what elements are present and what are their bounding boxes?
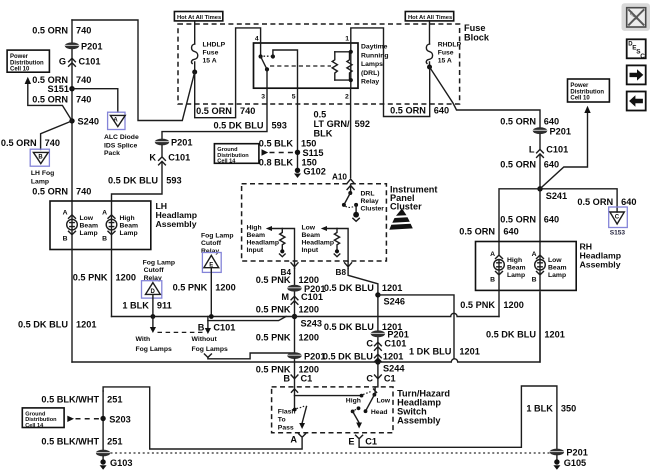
svg-text:0.5 ORN: 0.5 ORN xyxy=(1,138,37,148)
svg-text:Fuse: Fuse xyxy=(438,50,454,57)
svg-text:Distribution: Distribution xyxy=(10,60,44,66)
wire: B4 column 0.5 PNK 1200 (x=294.5) xyxy=(294,268,296,352)
svg-text:0.5 PNK: 0.5 PNK xyxy=(256,305,291,315)
svg-text:1201: 1201 xyxy=(459,346,479,356)
svg-text:Cell 10: Cell 10 xyxy=(10,67,30,73)
svg-text:G105: G105 xyxy=(564,458,586,468)
svg-text:G: G xyxy=(59,57,66,67)
svg-text:Input: Input xyxy=(302,247,319,254)
svg-text:G103: G103 xyxy=(110,458,132,468)
svg-text:15 A: 15 A xyxy=(438,58,452,65)
label 0.5 ORN 740 (fog lamp wire) xyxy=(1,138,60,148)
label 0.5 BLK 150 xyxy=(259,138,317,148)
svg-text:1201: 1201 xyxy=(382,283,402,293)
svg-text:P201: P201 xyxy=(81,41,102,51)
svg-text:S153: S153 xyxy=(610,230,626,237)
svg-text:1: 1 xyxy=(345,36,349,43)
svg-text:740: 740 xyxy=(45,138,60,148)
arrow wire from S240 to power distribution cell 10 xyxy=(25,77,72,121)
svg-text:640: 640 xyxy=(621,197,636,207)
svg-text:A: A xyxy=(490,251,495,258)
svg-text:1200: 1200 xyxy=(503,300,523,310)
LH headlamp assembly box xyxy=(50,201,197,250)
svg-text:740: 740 xyxy=(76,187,91,197)
svg-text:Fog Lamp: Fog Lamp xyxy=(201,233,233,240)
svg-text:0.5 BLK/WHT: 0.5 BLK/WHT xyxy=(41,436,99,446)
svg-text:B: B xyxy=(532,277,537,284)
connector B C101 (without fog lamps tap) xyxy=(192,317,287,358)
svg-text:0.5 PNK: 0.5 PNK xyxy=(256,333,291,343)
cluster low beam headlamp input xyxy=(302,225,349,262)
svg-text:0.5 DK BLU: 0.5 DK BLU xyxy=(324,283,374,293)
svg-text:DRL: DRL xyxy=(361,191,375,198)
ALC diode IDS splice pack (triangle A) xyxy=(104,112,139,157)
wire: switch A to S203 ground run xyxy=(103,387,302,449)
svg-text:0.5 ORN: 0.5 ORN xyxy=(459,226,495,236)
icon button: prev arrow xyxy=(627,92,646,111)
svg-text:Lamp: Lamp xyxy=(31,178,49,185)
wire: LH high beam B down to PNK run xyxy=(111,230,113,317)
svg-text:Low: Low xyxy=(80,215,94,222)
svg-text:Lamps: Lamps xyxy=(361,61,383,68)
connector P201 (G103) xyxy=(96,450,110,457)
wire: RH low beam B to DK BLU trunk xyxy=(539,270,541,362)
svg-text:LHDLP: LHDLP xyxy=(203,42,226,49)
svg-text:1201: 1201 xyxy=(76,319,96,329)
svg-text:0.8 BLK: 0.8 BLK xyxy=(259,158,294,168)
svg-text:C101: C101 xyxy=(546,145,568,155)
splice S244 xyxy=(375,359,405,373)
ground distribution cell 14 box (bottom left) xyxy=(22,408,64,429)
fuse RHDLP 15A xyxy=(426,21,461,70)
wire: relay pin5 to ground G102 xyxy=(297,88,299,168)
svg-text:B: B xyxy=(198,322,205,332)
svg-text:1200: 1200 xyxy=(299,333,319,343)
splice S203 xyxy=(100,391,130,450)
icon button: next arrow xyxy=(627,65,646,84)
svg-text:BLK: BLK xyxy=(314,129,333,139)
svg-text:2: 2 xyxy=(345,94,349,101)
svg-text:C: C xyxy=(366,339,373,349)
label 0.5 PNK 1200 (LH high beam) xyxy=(73,272,136,282)
wire: without-fog-lamps bypass to B C1 xyxy=(208,353,295,359)
svg-text:Cutoff: Cutoff xyxy=(201,240,222,247)
hot at all times box (right) xyxy=(405,12,453,21)
svg-text:Cluster: Cluster xyxy=(390,202,422,212)
label 0.5 PNK 1200 (B C1) xyxy=(256,364,319,374)
svg-text:Fuse: Fuse xyxy=(203,50,219,57)
svg-text:350: 350 xyxy=(561,403,576,413)
svg-text:Fog Lamp: Fog Lamp xyxy=(143,259,175,266)
icon button: ESC xyxy=(627,39,646,60)
splice S151 xyxy=(48,84,75,94)
cluster high beam headlamp input xyxy=(247,225,295,262)
svg-text:Pass: Pass xyxy=(278,425,294,432)
svg-text:Beam: Beam xyxy=(247,232,266,239)
icon button: disabled zoom (crossed) xyxy=(622,3,650,31)
svg-text:Assembly: Assembly xyxy=(156,219,197,229)
DRL relay cluster switch xyxy=(342,184,384,221)
wire: RHDLP fuse to right trunk xyxy=(430,67,541,127)
connector M C101 xyxy=(281,292,323,304)
svg-text:With: With xyxy=(136,336,151,343)
wire: relay pin4 feed from LHDLP fuse xyxy=(195,28,261,118)
fuse block dashed border xyxy=(178,23,490,104)
splice S241 xyxy=(537,186,567,201)
svg-text:B: B xyxy=(102,236,107,243)
svg-text:1 BLK: 1 BLK xyxy=(122,300,149,310)
svg-text:1200: 1200 xyxy=(116,272,136,282)
wire: S246 to right drop xyxy=(378,295,454,358)
label 0.5 ORN 640 (triangle C wire) xyxy=(577,197,636,207)
label 0.5 PNK 1200 (B4) xyxy=(256,275,319,285)
svg-text:RHDLP: RHDLP xyxy=(438,42,462,49)
svg-text:0.5 DK BLU: 0.5 DK BLU xyxy=(323,352,373,362)
label 0.5 PNK 1200 (RH high beam) xyxy=(460,300,524,310)
svg-text:LT GRN/: LT GRN/ xyxy=(314,119,351,129)
svg-text:A: A xyxy=(532,251,537,258)
svg-text:0.5 DK BLU: 0.5 DK BLU xyxy=(18,319,68,329)
ground G105 xyxy=(553,455,586,469)
svg-text:0.5 BLK/WHT: 0.5 BLK/WHT xyxy=(41,394,99,404)
LH high beam lamp xyxy=(102,210,138,243)
wire: LHDLP fuse to left trunk xyxy=(72,20,195,121)
svg-text:K: K xyxy=(149,152,156,162)
svg-text:C1: C1 xyxy=(384,373,396,383)
svg-text:0.5 PNK: 0.5 PNK xyxy=(73,272,108,282)
pin B8 xyxy=(336,262,352,277)
svg-text:Headlamp: Headlamp xyxy=(302,240,334,247)
wire: triangle E to PNK run xyxy=(210,268,212,317)
flash to pass switch xyxy=(278,388,307,431)
label 0.5 BLK/WHT 251 (upper) xyxy=(41,394,122,404)
svg-text:G102: G102 xyxy=(303,167,325,177)
svg-text:S240: S240 xyxy=(78,117,99,127)
svg-text:Beam: Beam xyxy=(507,264,526,271)
svg-text:Input: Input xyxy=(247,247,264,254)
label 0.5 BLK/WHT 251 (lower) xyxy=(41,436,122,446)
svg-text:Beam: Beam xyxy=(80,223,99,230)
svg-text:B: B xyxy=(283,373,290,383)
with fog lamps option arrow xyxy=(136,317,172,354)
wire: S241 right branch to triangle C xyxy=(540,189,617,212)
svg-text:L: L xyxy=(529,145,535,155)
dashed reference arrow to S203 xyxy=(67,416,99,422)
label 0.5 PNK 1200 (above P201 B) xyxy=(256,333,319,343)
svg-text:0.5 PNK: 0.5 PNK xyxy=(460,300,495,310)
headlamp switch (high/low/head) xyxy=(295,388,391,429)
dashed option link xyxy=(158,331,203,333)
label 1 BLK 350 xyxy=(526,403,576,413)
label 0.5 ORN 640 (above P201 L) xyxy=(500,117,559,127)
RH headlamp assembly box xyxy=(476,242,622,291)
relay actuation dashed link xyxy=(270,65,331,67)
svg-text:740: 740 xyxy=(76,95,91,105)
connector P201 (M) xyxy=(287,284,325,294)
splice S115 xyxy=(295,148,324,158)
svg-text:Assembly: Assembly xyxy=(397,415,441,425)
svg-text:1201: 1201 xyxy=(544,329,564,339)
svg-text:0.5 ORN: 0.5 ORN xyxy=(577,197,613,207)
svg-text:640: 640 xyxy=(544,215,559,225)
svg-text:Fuse: Fuse xyxy=(464,23,485,33)
svg-text:A: A xyxy=(290,435,297,445)
splice S246 xyxy=(375,292,405,306)
svg-text:Lamp: Lamp xyxy=(548,272,566,279)
svg-text:B: B xyxy=(38,154,43,160)
connector C C101 xyxy=(366,339,406,351)
svg-text:Fog Lamps: Fog Lamps xyxy=(192,346,228,353)
svg-text:Without: Without xyxy=(192,336,218,343)
svg-text:P201: P201 xyxy=(550,126,571,136)
svg-text:Cell 14: Cell 14 xyxy=(217,159,236,165)
wire: S241 left branch to RH high beam xyxy=(499,189,540,255)
svg-text:0.5 ORN: 0.5 ORN xyxy=(32,187,68,197)
svg-text:640: 640 xyxy=(544,117,559,127)
svg-text:593: 593 xyxy=(272,120,287,130)
arrow wire from S241 to power distribution cell 10 xyxy=(540,106,591,189)
svg-text:0.5 DK BLU: 0.5 DK BLU xyxy=(324,322,374,332)
svg-text:P201: P201 xyxy=(171,138,192,148)
ground G102 xyxy=(294,167,326,179)
svg-text:0.5 PNK: 0.5 PNK xyxy=(173,282,208,292)
svg-text:Assembly: Assembly xyxy=(580,260,621,270)
label 1 DK BLU 1201 xyxy=(409,346,480,356)
svg-text:Lamp: Lamp xyxy=(120,230,138,237)
svg-text:Hot At All Times: Hot At All Times xyxy=(177,15,221,21)
triangle C (S153) xyxy=(609,207,628,237)
wire: relay pin2 to cluster A10 xyxy=(350,88,352,178)
svg-text:C101: C101 xyxy=(384,339,406,349)
wire: RH high beam B to PNK run xyxy=(498,270,500,316)
relay resistor xyxy=(347,52,352,80)
svg-text:High: High xyxy=(346,398,361,405)
svg-text:Running: Running xyxy=(361,52,389,59)
DRL relay box xyxy=(254,43,389,88)
svg-text:C101: C101 xyxy=(301,292,323,302)
svg-text:A: A xyxy=(102,210,107,217)
label 0.5 PNK 1200 (triangle E wire) xyxy=(173,282,236,292)
svg-text:High: High xyxy=(507,257,522,264)
svg-text:1 DK BLU: 1 DK BLU xyxy=(409,346,452,356)
label 0.5 ORN 740 (pin4 feed, inside U) xyxy=(196,106,255,116)
svg-text:0.5 PNK: 0.5 PNK xyxy=(256,275,291,285)
svg-text:Lamp: Lamp xyxy=(80,230,98,237)
svg-text:S151: S151 xyxy=(48,84,69,94)
label 0.5 ORN 740 row1 xyxy=(32,26,91,36)
svg-text:Cell 14: Cell 14 xyxy=(25,423,44,429)
label 0.5 DK BLU 1201 (B8) xyxy=(324,283,402,293)
connector P201 (L) xyxy=(533,126,571,136)
svg-text:Beam: Beam xyxy=(120,223,139,230)
svg-text:(DRL): (DRL) xyxy=(361,70,380,77)
svg-text:640: 640 xyxy=(544,159,559,169)
svg-text:251: 251 xyxy=(107,436,122,446)
svg-text:0.5 BLK: 0.5 BLK xyxy=(259,138,294,148)
power distribution cell 10 box (right) xyxy=(568,79,610,102)
relay internal switch pin4 xyxy=(259,43,298,88)
wire: LH low beam B down to DK BLU trunk run xyxy=(71,230,73,362)
wire: triangle D to PNK run (1 BLK 911) xyxy=(152,295,154,317)
svg-text:Low: Low xyxy=(302,225,316,232)
label 0.5 DK BLU 1201 (RH low beam) xyxy=(486,329,565,339)
wire: left trunk 0.5 ORN 740 (x=72) xyxy=(71,20,73,219)
svg-text:Distribution: Distribution xyxy=(570,89,604,95)
wire: DK BLU 1201 trunk run xyxy=(72,293,540,362)
hot at all times box (left) xyxy=(174,12,222,21)
svg-text:High: High xyxy=(247,225,262,232)
fog lamp cutoff relay (triangle E) xyxy=(201,233,233,273)
wire: relay pin3 to K C101 xyxy=(162,88,267,139)
svg-text:1200: 1200 xyxy=(299,305,319,315)
svg-text:Low: Low xyxy=(377,398,391,405)
connector L C101 xyxy=(529,134,568,189)
connector P201 (G105) xyxy=(550,448,588,458)
label 0.5 ORN 740 row4 (into LH headlamp) xyxy=(32,187,91,197)
power distribution cell 10 box (left) xyxy=(7,50,49,73)
svg-text:ALC Diode: ALC Diode xyxy=(104,134,139,141)
connector P201 (C) xyxy=(371,330,409,340)
wire: E C1 to G105 (1 BLK 350) xyxy=(359,386,557,449)
ground distribution cell 14 box (middle) xyxy=(214,144,259,165)
svg-text:Low: Low xyxy=(548,257,562,264)
svg-text:Relay: Relay xyxy=(361,79,379,86)
dotted harness line xyxy=(111,452,550,454)
svg-text:C1: C1 xyxy=(365,436,377,446)
pin A10 xyxy=(332,172,354,183)
label 0.5 ORN 740 row2 xyxy=(32,75,91,85)
connector K C101 xyxy=(149,146,190,165)
label 0.5 ORN 640 (RH high beam feed) xyxy=(459,226,518,236)
svg-text:C101: C101 xyxy=(168,152,190,162)
instrument panel cluster dashed box xyxy=(242,184,438,261)
svg-text:Lamp: Lamp xyxy=(507,272,525,279)
svg-text:150: 150 xyxy=(301,138,316,148)
svg-text:Beam: Beam xyxy=(302,232,321,239)
svg-text:911: 911 xyxy=(157,300,172,310)
ground G103 xyxy=(100,456,133,469)
connector B C1 xyxy=(283,373,312,383)
svg-text:B: B xyxy=(63,236,68,243)
svg-text:0.5: 0.5 xyxy=(314,110,327,120)
wire: S151 to ALC diode splice pack xyxy=(72,89,118,112)
svg-text:High: High xyxy=(120,215,135,222)
label 0.5 ORN 640 (above S241) xyxy=(500,159,559,169)
label 0.5 DK BLU 593 (K wire) xyxy=(108,175,182,185)
svg-text:Relay: Relay xyxy=(361,198,379,205)
switch pin A xyxy=(290,434,305,445)
LH low beam lamp xyxy=(63,210,98,243)
wire: S240 to LH fog lamp xyxy=(41,121,72,149)
label 0.5 ORN 740 row3 xyxy=(32,95,91,105)
svg-text:1201: 1201 xyxy=(383,352,403,362)
svg-text:IDS Splice: IDS Splice xyxy=(104,142,137,149)
svg-text:0.5 ORN: 0.5 ORN xyxy=(32,26,68,36)
svg-text:3: 3 xyxy=(261,94,265,101)
svg-text:0.5 ORN: 0.5 ORN xyxy=(500,159,536,169)
svg-text:S241: S241 xyxy=(546,191,567,201)
svg-text:Power: Power xyxy=(570,83,589,89)
svg-text:Cell 10: Cell 10 xyxy=(570,96,590,102)
svg-text:Flash: Flash xyxy=(278,409,296,416)
label 0.5 DK BLU 1201 (LH low beam) xyxy=(18,319,96,329)
connector P201 (B) xyxy=(287,351,325,361)
label 0.8 BLK 150 xyxy=(259,158,317,168)
svg-text:S246: S246 xyxy=(384,297,405,307)
label 0.5 DK BLU 1201 with chevron (above S244) xyxy=(323,352,403,362)
pin B4 xyxy=(281,262,298,277)
turn/hazard headlamp switch dashed box xyxy=(272,387,450,433)
wire: K C101 to LH high beam xyxy=(112,163,163,219)
svg-text:592: 592 xyxy=(355,119,370,129)
svg-text:A: A xyxy=(113,117,118,123)
svg-text:Hot At All Times: Hot At All Times xyxy=(408,15,452,21)
svg-text:1 BLK: 1 BLK xyxy=(526,403,553,413)
svg-text:0.5 DK BLU: 0.5 DK BLU xyxy=(108,175,158,185)
svg-text:C101: C101 xyxy=(79,57,101,67)
svg-text:Block: Block xyxy=(464,33,490,43)
switch pin E C1 xyxy=(348,435,377,446)
label 1 BLK 911 xyxy=(122,300,171,310)
relay coil xyxy=(332,52,337,80)
svg-text:0.5 ORN: 0.5 ORN xyxy=(32,95,68,105)
connector G C101 xyxy=(59,57,101,67)
svg-text:5: 5 xyxy=(292,94,296,101)
svg-text:0.5 ORN: 0.5 ORN xyxy=(390,106,426,116)
svg-text:S115: S115 xyxy=(303,148,324,158)
svg-text:B8: B8 xyxy=(336,268,347,277)
svg-text:Pack: Pack xyxy=(104,150,120,157)
svg-text:15 A: 15 A xyxy=(203,58,217,65)
svg-text:B: B xyxy=(490,277,495,284)
svg-text:4: 4 xyxy=(255,36,259,43)
label 0.5 DK BLU 1201 (above P201 C) xyxy=(324,322,402,332)
svg-text:S203: S203 xyxy=(109,414,130,424)
label 0.5 ORN 640 (pin1 feed, inside U) xyxy=(390,106,449,116)
svg-text:0.5 DK BLU: 0.5 DK BLU xyxy=(486,329,536,339)
relay coil/resistor rails + pin1-pin2 through wire xyxy=(335,43,353,88)
svg-text:S243: S243 xyxy=(301,319,322,329)
connector P201 on left trunk xyxy=(65,41,103,51)
svg-text:Cutoff: Cutoff xyxy=(144,267,165,274)
svg-text:C: C xyxy=(366,373,373,383)
svg-text:640: 640 xyxy=(434,106,449,116)
wire: S244 down to switch C C1 xyxy=(377,362,379,387)
svg-text:740: 740 xyxy=(76,75,91,85)
svg-text:740: 740 xyxy=(240,106,255,116)
fuse LHDLP 15A xyxy=(191,21,225,75)
svg-text:0.5 ORN: 0.5 ORN xyxy=(500,215,536,225)
svg-text:593: 593 xyxy=(166,175,181,185)
wire: relay pin1 feed from RHDLP fuse xyxy=(351,28,430,117)
svg-text:To: To xyxy=(278,417,286,424)
RH high beam lamp xyxy=(490,251,525,284)
svg-text:Headlamp: Headlamp xyxy=(247,240,279,247)
svg-text:C: C xyxy=(615,214,620,220)
svg-text:Power: Power xyxy=(10,54,29,60)
connector C C1 xyxy=(366,373,395,383)
svg-text:P201: P201 xyxy=(566,448,587,458)
svg-text:Relay: Relay xyxy=(201,248,219,255)
svg-text:251: 251 xyxy=(107,394,122,404)
svg-text:Beam: Beam xyxy=(548,264,567,271)
svg-text:M: M xyxy=(281,292,289,302)
label 0.5 PNK 1200 (above S243) xyxy=(256,305,319,315)
svg-text:1200: 1200 xyxy=(215,282,235,292)
svg-text:C1: C1 xyxy=(301,373,313,383)
svg-text:C101: C101 xyxy=(213,322,235,332)
svg-text:A10: A10 xyxy=(332,172,347,181)
